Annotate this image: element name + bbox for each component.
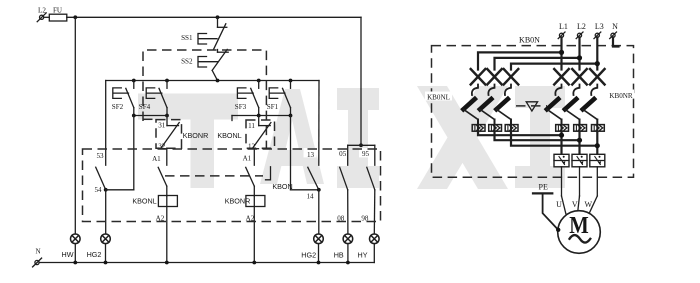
svg-text:31: 31 — [158, 121, 166, 129]
wire V bend — [578, 196, 580, 211]
svg-text:A1: A1 — [152, 155, 161, 163]
node SF3 bottom — [257, 114, 261, 118]
wire KB0NR-2 down — [578, 131, 580, 154]
wire KB0NR-3 to motor — [596, 167, 598, 196]
coil KBONL — [158, 196, 177, 207]
wire 54 to HG2 lamp — [105, 190, 107, 234]
label 13 — [304, 148, 317, 157]
wire HB to N bus — [347, 244, 349, 263]
svg-text:HW: HW — [62, 250, 74, 259]
thermal element KB0NL-1 — [472, 125, 485, 132]
wire L1 drop — [560, 37, 562, 69]
wire KB0NR-3 down — [596, 131, 598, 154]
svg-text:L1: L1 — [559, 22, 568, 31]
node L1 branch — [559, 50, 564, 55]
svg-text:HB: HB — [334, 251, 344, 260]
breaker pole KB0NL-1 — [463, 69, 485, 131]
box SS/SF dashed outline — [143, 50, 266, 149]
wire contact to coil KBONL — [166, 186, 168, 196]
svg-text:PE: PE — [539, 183, 548, 192]
svg-text:FU: FU — [53, 6, 62, 14]
wire HG2 right to N bus — [318, 244, 320, 263]
wire pole KB0NL-1 to row A — [478, 131, 562, 135]
svg-text:HY: HY — [358, 251, 368, 260]
wire top rail down to 05/95 — [360, 17, 362, 145]
svg-text:V: V — [572, 200, 578, 209]
wire left vertical (HW branch) — [74, 17, 76, 234]
lamp HG2 (right) — [314, 234, 324, 244]
node SF2 bottom — [132, 114, 136, 118]
wire L2 drop — [578, 37, 580, 69]
node SF1 bottom — [289, 114, 293, 118]
node bus x258 — [257, 79, 261, 83]
label 08 — [335, 213, 347, 222]
svg-text:KBON: KBON — [272, 182, 292, 191]
svg-text:11: 11 — [248, 122, 255, 130]
wire KB0NR-1 down — [560, 131, 562, 154]
wire N stub — [613, 37, 619, 46]
linkage hook to KBON label — [266, 167, 271, 180]
junction node SS branch — [216, 15, 220, 19]
terminal L2 (control supply) — [37, 13, 46, 22]
node 14 junction — [317, 188, 321, 192]
wire pole KB0NL-2 to row B — [495, 131, 580, 140]
label 95 — [359, 148, 370, 157]
junction node top-left — [73, 15, 77, 19]
wire stub to contact 05 — [347, 145, 349, 165]
trip linkage dashes — [516, 105, 547, 107]
wire bus to contact 53 — [105, 81, 107, 166]
thermal element KB0NR-3 — [592, 125, 605, 132]
svg-text:N: N — [35, 248, 40, 256]
node row join KB0NR-2 — [577, 138, 582, 143]
terminal PE bar — [533, 192, 552, 194]
wire 32 to A1 (left chain) — [166, 149, 168, 166]
label KB0NR — [608, 90, 634, 99]
breaker pole KB0NL-2 — [480, 69, 502, 131]
wire 08 to HB lamp — [347, 190, 349, 234]
label 05 — [336, 148, 347, 157]
switch SS1 (NC stop) — [198, 17, 227, 49]
terminal L2 power — [576, 32, 583, 39]
wire row L2 to left pole2 — [495, 58, 580, 70]
wire 14 to HG2 lamp — [318, 190, 320, 234]
wire KB0NR-2 to motor — [579, 167, 581, 196]
contact thermal 95/98 — [367, 167, 375, 190]
breaker pole KB0NR-3 — [583, 69, 605, 131]
wire control bus — [106, 80, 319, 82]
wire 05/95 header bar — [348, 144, 375, 146]
wire SF2 branch down — [133, 116, 135, 190]
svg-text:13: 13 — [307, 151, 315, 159]
switch SS2 (NC stop) — [198, 49, 228, 80]
breaker pole KB0NL-3 — [496, 69, 518, 131]
pushbutton SF4 (NO) — [146, 81, 167, 116]
node N bus x254 — [252, 261, 256, 265]
wire SF3-SF1 link — [232, 115, 291, 117]
contact block KB0NR-1 — [554, 154, 569, 167]
svg-text:KB0N: KB0N — [519, 36, 540, 45]
box KBONL interlock — [246, 120, 275, 148]
thermal element KB0NR-1 — [556, 125, 569, 132]
terminal L3 power — [594, 32, 601, 39]
box KB0N power outline — [432, 46, 634, 178]
svg-text:N: N — [612, 22, 618, 31]
wire W bend — [589, 196, 598, 215]
svg-text:KB0NR: KB0NR — [609, 92, 633, 100]
node bus x133 — [132, 79, 136, 83]
linkage KBON (dashed) — [165, 175, 263, 177]
wire 98 to HY lamp — [373, 190, 376, 234]
watermark TAIXI — [138, 86, 565, 189]
pushbutton SF3 (NO) — [237, 81, 258, 116]
svg-text:SF2: SF2 — [112, 103, 124, 111]
wire U bend — [562, 196, 567, 214]
svg-text:W: W — [585, 200, 593, 209]
contact KBON 53/54 (NO) — [96, 167, 106, 190]
node L2 branch — [577, 55, 582, 60]
svg-text:KBONR: KBONR — [183, 131, 209, 140]
wire L2 terminal to fuse — [44, 16, 50, 18]
terminal N (control) — [33, 258, 42, 267]
wire L3 drop — [596, 37, 598, 69]
lamp HG2 (left) — [101, 234, 111, 244]
wire HY to N bus corner — [373, 244, 375, 263]
contact KBONR 31/32 (NC interlock) — [159, 116, 180, 149]
svg-text:SF3: SF3 — [235, 103, 247, 111]
wire coil KBONL to N bus — [166, 196, 168, 263]
svg-text:SF4: SF4 — [139, 103, 151, 111]
thermal element KB0NL-3 — [505, 125, 518, 132]
breaker pole KB0NR-1 — [547, 69, 569, 131]
wire stub to contact 95 — [374, 145, 376, 165]
node bus x167 — [165, 79, 169, 83]
thermal element KB0NR-2 — [574, 125, 587, 132]
node N bus x105 — [104, 261, 108, 265]
svg-text:SS2: SS2 — [181, 57, 193, 65]
wire N bus — [39, 262, 374, 264]
svg-text:L3: L3 — [595, 22, 604, 31]
terminal L1 power — [558, 32, 565, 39]
svg-text:L2: L2 — [577, 22, 586, 31]
wire row L3 to left pole3 — [511, 64, 597, 70]
label 98 — [359, 213, 371, 222]
svg-text:L2: L2 — [38, 6, 46, 14]
wire top rail — [67, 16, 361, 18]
svg-text:14: 14 — [306, 192, 314, 200]
svg-text:54: 54 — [94, 186, 102, 194]
wire bus corner to contact 13 — [318, 81, 320, 166]
pushbutton SF2 (NO) — [113, 81, 134, 116]
node N bus x318 — [317, 261, 321, 265]
wire pole KB0NL-3 to row C — [511, 131, 597, 145]
contact KBONL 11/12 (NC interlock) — [250, 116, 271, 149]
wire PE to motor frame — [543, 193, 558, 229]
svg-text:HG2: HG2 — [301, 251, 316, 260]
node bus x290 — [289, 79, 293, 83]
svg-text:KB0NL: KB0NL — [427, 94, 450, 102]
pushbutton SF1 (NO) — [269, 81, 290, 116]
box KBONR interlock — [156, 120, 182, 149]
wire 12 to A1 (right chain) — [253, 149, 255, 166]
svg-text:KBONL: KBONL — [217, 131, 241, 140]
wire HW lamp to N bus — [74, 244, 76, 263]
wire KB0NR-1 to motor — [561, 167, 563, 196]
stub link left end — [231, 116, 233, 121]
motor M — [558, 211, 601, 254]
svg-text:KBONL: KBONL — [132, 196, 156, 205]
wire SF2-SF4 link — [134, 115, 167, 117]
svg-text:53: 53 — [96, 152, 104, 160]
breaker pole KB0NR-2 — [565, 69, 587, 131]
contact block KB0NR-3 — [590, 154, 605, 167]
contact KBON 13/14 (NO) — [308, 167, 319, 190]
label KB0NL — [425, 92, 452, 101]
svg-text:HG2: HG2 — [87, 250, 102, 259]
wire HG2 lamp to N bus — [105, 244, 107, 263]
wire SF2 branch to node 54 — [106, 189, 134, 191]
svg-text:KBONR: KBONR — [225, 196, 251, 205]
wire contact to coil KBONR — [253, 186, 255, 196]
lamp HB — [343, 234, 353, 244]
node 54 junction — [104, 188, 108, 192]
node SF4 bottom — [165, 114, 169, 118]
wire SF1 branch to node 14 — [291, 189, 319, 191]
contact KBON (NO, left chain) — [158, 167, 167, 186]
node N bus x166 — [165, 261, 169, 265]
node PE motor frame — [556, 228, 560, 232]
trip linkage symbol — [526, 102, 537, 111]
svg-text:U: U — [556, 200, 562, 209]
node L3 branch — [595, 61, 600, 66]
terminal N power — [610, 32, 617, 39]
node N bus x75 — [73, 261, 77, 265]
svg-text:A1: A1 — [243, 155, 252, 163]
contact KBON 05/08 (NO) — [340, 167, 348, 190]
node row join KB0NR-3 — [595, 143, 600, 148]
svg-text:SS1: SS1 — [181, 34, 193, 42]
lamp HW — [71, 234, 81, 244]
node N bus x347 — [346, 261, 350, 265]
node 05/95 branch — [359, 143, 363, 147]
wire coil KBONR to N bus — [253, 196, 255, 263]
wire row L1 to left pole1 — [478, 52, 562, 69]
contact block KB0NR-2 — [572, 154, 587, 167]
box KB0N control outline — [83, 149, 381, 222]
contact KBON (NO, right chain) — [246, 167, 255, 186]
node row join KB0NR-1 — [559, 133, 564, 138]
svg-text:95: 95 — [362, 150, 370, 158]
wire SF1 branch down — [290, 116, 292, 190]
thermal element KB0NL-2 — [489, 125, 502, 132]
svg-text:SF1: SF1 — [267, 103, 279, 111]
dashed link to interlock box — [143, 118, 156, 120]
fuse FU — [49, 14, 67, 21]
svg-text:05: 05 — [339, 150, 347, 158]
coil KBONR — [246, 196, 265, 207]
node bus x217 — [216, 79, 220, 83]
lamp HY — [370, 234, 380, 244]
